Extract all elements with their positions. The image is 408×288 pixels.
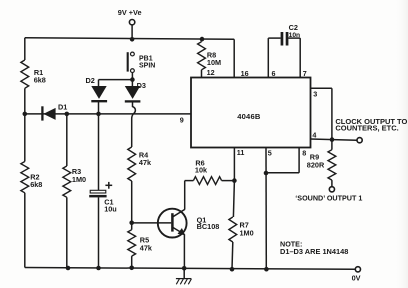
junction R5 bottom rail xyxy=(129,266,134,271)
op-amp U1 4046B IC body xyxy=(191,78,311,148)
svg-text:PB1: PB1 xyxy=(139,55,153,62)
capacitor C2 xyxy=(281,32,289,46)
wire left rail upper xyxy=(24,38,26,60)
svg-text:9V +Ve: 9V +Ve xyxy=(118,8,142,17)
junction emitter bottom rail xyxy=(182,266,187,271)
svg-text:1M0: 1M0 xyxy=(72,175,86,184)
svg-text:8: 8 xyxy=(302,148,306,157)
diode D3 xyxy=(125,80,141,102)
diode D1 xyxy=(42,106,55,120)
junction pin5/pin8 xyxy=(264,171,269,176)
svg-text:0V: 0V xyxy=(352,274,361,283)
wire pin 8 down xyxy=(298,148,300,173)
label C1 plus sign xyxy=(105,182,112,189)
wire C2 right plate to pin 7 xyxy=(288,37,300,39)
wire R4 to base node xyxy=(131,181,133,223)
svg-text:D2: D2 xyxy=(86,76,95,85)
wire pin 3 right xyxy=(311,87,332,89)
junction C1 bottom rail xyxy=(96,266,101,271)
wire 9V terminal to rail xyxy=(131,25,133,39)
wire pin 6 up xyxy=(267,38,269,77)
wire R6 left lead xyxy=(185,180,194,182)
wire pin 11 down xyxy=(233,148,235,181)
svg-text:5: 5 xyxy=(268,148,272,157)
wire R5 bottom lead xyxy=(131,256,133,268)
wire pin 16 from rail xyxy=(233,39,235,77)
wire C1 top lead xyxy=(98,114,100,190)
wire Q1 emitter leg xyxy=(183,234,185,268)
svg-text:6k8: 6k8 xyxy=(34,76,46,85)
wire pin 3 down xyxy=(331,88,333,139)
junction base divider node xyxy=(129,221,134,226)
wire R9 bottom lead xyxy=(331,180,333,186)
svg-text:47k: 47k xyxy=(140,243,153,252)
wire R3 bottom lead xyxy=(66,197,68,268)
junction R3 top xyxy=(65,112,70,117)
wire top +9V rail xyxy=(25,38,234,40)
resistor R9 xyxy=(328,150,336,180)
wire D2-D3 anode link xyxy=(99,79,133,81)
svg-text:10n: 10n xyxy=(289,32,301,39)
resistor R2 xyxy=(21,162,29,193)
junction R8 top rail xyxy=(200,37,205,42)
resistor R6 xyxy=(193,177,221,185)
node clock output terminal xyxy=(357,138,362,143)
wire R3 top lead xyxy=(66,114,68,166)
wire Q1 base xyxy=(132,222,172,224)
resistor R4 xyxy=(128,147,136,181)
wire pin 7 down xyxy=(299,38,301,77)
resistor R7 xyxy=(229,217,237,242)
junction R7 bottom rail xyxy=(230,267,235,272)
svg-text:BC108: BC108 xyxy=(197,222,220,231)
svg-text:12: 12 xyxy=(207,68,215,77)
wire pin 5 down xyxy=(265,148,267,270)
wire left rail middle xyxy=(24,88,26,161)
svg-text:‘SOUND’ OUTPUT 1: ‘SOUND’ OUTPUT 1 xyxy=(295,193,362,202)
resistor R1 xyxy=(21,60,29,88)
svg-text:4: 4 xyxy=(312,131,316,140)
junction mid rail left xyxy=(23,112,28,117)
svg-text:4046B: 4046B xyxy=(237,112,261,121)
resistor R3 xyxy=(63,166,71,197)
junction R3 bottom rail xyxy=(66,266,71,271)
wire left rail lower xyxy=(24,193,26,268)
wire pin-9 mid rail xyxy=(25,113,191,115)
svg-text:47k: 47k xyxy=(139,158,152,167)
svg-text:9: 9 xyxy=(180,115,184,124)
svg-text:11: 11 xyxy=(237,148,245,157)
junction 9V rail xyxy=(130,37,135,42)
wire R8 top lead xyxy=(201,39,203,42)
wire to C2 left plate xyxy=(268,37,280,39)
svg-text:COUNTERS, ETC.: COUNTERS, ETC. xyxy=(335,124,398,133)
diode D2 xyxy=(91,80,107,114)
svg-text:SPIN: SPIN xyxy=(139,62,155,69)
svg-text:820R: 820R xyxy=(307,161,325,170)
svg-text:3: 3 xyxy=(313,89,317,98)
wire pin 8 to pin 5 xyxy=(266,172,299,174)
svg-text:6k8: 6k8 xyxy=(30,180,42,189)
capacitor C1 xyxy=(89,190,106,268)
junction D2/C1 on mid rail xyxy=(96,112,101,117)
wire PB1 to diode node xyxy=(131,73,133,80)
svg-text:D1–D3 ARE 1N4148: D1–D3 ARE 1N4148 xyxy=(280,247,348,256)
wire R7 bottom lead xyxy=(231,242,234,269)
wire D3 hop over mid rail xyxy=(132,101,136,147)
svg-text:D3: D3 xyxy=(137,81,146,90)
resistor R5 xyxy=(128,230,136,256)
junction PB1/D2/D3 node xyxy=(130,77,135,82)
wire R9 top lead xyxy=(331,140,333,150)
wire Q1 collector leg xyxy=(184,181,186,210)
svg-text:10u: 10u xyxy=(104,205,117,214)
svg-text:1M0: 1M0 xyxy=(240,228,254,237)
wire R5 top lead xyxy=(131,223,133,230)
wire R7 top lead xyxy=(233,181,234,217)
wire bottom 0V rail xyxy=(25,268,355,270)
svg-text:D1: D1 xyxy=(58,103,67,112)
wire R6 right lead xyxy=(222,180,235,182)
switch PB1 xyxy=(128,52,135,72)
wire R8 to pin 12 xyxy=(201,70,203,78)
svg-text:10M: 10M xyxy=(207,58,221,67)
svg-text:16: 16 xyxy=(241,69,249,78)
ground xyxy=(176,268,192,284)
junction pin5 bottom rail xyxy=(264,267,269,272)
transistor Q1 xyxy=(158,209,187,238)
junction R6 pin-11 line xyxy=(232,178,237,183)
svg-text:10k: 10k xyxy=(195,166,208,175)
wire pin 4 clock output xyxy=(311,139,357,140)
junction pin4/R9 xyxy=(330,137,335,142)
node sound output terminal xyxy=(329,187,334,192)
resistor R8 xyxy=(198,42,206,70)
node 9V terminal xyxy=(129,20,134,25)
node 0V terminal xyxy=(355,267,360,272)
svg-text:C2: C2 xyxy=(289,23,298,32)
